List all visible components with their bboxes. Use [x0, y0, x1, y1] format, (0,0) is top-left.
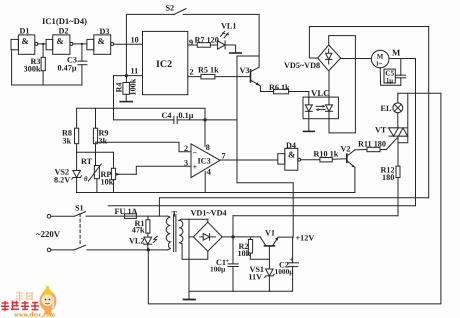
svg-text:&: & — [57, 36, 64, 46]
wire R8/VS2/RP row — [77, 151, 114, 153]
svg-text:R7 120: R7 120 — [195, 36, 219, 45]
wire divider top rail — [77, 108, 205, 146]
svg-text:VL2: VL2 — [129, 237, 144, 246]
capacitor C3 — [78, 44, 87, 85]
transistor V1 — [260, 237, 278, 269]
ground VL1 — [230, 52, 241, 54]
capacitor C2 — [287, 237, 298, 267]
gate D2 — [46, 35, 73, 54]
resistor R1 — [146, 216, 150, 237]
svg-text:8: 8 — [206, 143, 210, 152]
zener diode VS2 — [72, 152, 82, 192]
svg-text:EL: EL — [381, 104, 392, 113]
svg-text:100μ: 100μ — [210, 265, 226, 274]
node R3 tap — [42, 43, 44, 45]
svg-text:R10 1k: R10 1k — [314, 149, 339, 158]
resistor R12 — [396, 166, 400, 216]
resistor R2 — [248, 237, 269, 259]
svg-text:2: 2 — [184, 144, 188, 153]
wire VT bypass — [398, 93, 408, 143]
svg-text:&: & — [98, 36, 105, 46]
transistor V3 — [251, 67, 261, 91]
svg-text:V1: V1 — [265, 229, 275, 238]
svg-text:C4: C4 — [162, 111, 172, 120]
logo watermark glyph blobs (faint orange) — [16, 291, 33, 301]
op-amp U IC2 box — [143, 31, 188, 94]
potentiometer RP — [111, 152, 136, 192]
svg-text:R6 1k: R6 1k — [269, 83, 290, 92]
svg-text:VD5~VD8: VD5~VD8 — [284, 61, 320, 70]
node junction S2/pin11 — [125, 74, 128, 77]
wire secondary bottom to bridge AC2 — [182, 244, 208, 259]
svg-text:VLC: VLC — [311, 88, 330, 98]
resistor R6 — [261, 89, 309, 94]
triac VT — [388, 128, 407, 166]
svg-text:7: 7 — [222, 152, 226, 161]
wire R8 bottom — [76, 144, 78, 153]
svg-text:10k: 10k — [238, 249, 251, 258]
logo red glyph blobs — [1, 301, 39, 311]
switch S1 — [51, 212, 168, 250]
wire IC3 pin8 (up) — [204, 120, 206, 146]
svg-text:R11 180: R11 180 — [358, 139, 386, 148]
wire bridge right vertex to motor — [341, 58, 372, 60]
svg-text:T: T — [172, 210, 178, 219]
resistor R5 — [188, 74, 251, 79]
wire D3 output to IC2 pin 10 — [114, 43, 143, 45]
wire EL top — [398, 92, 441, 94]
svg-text:9: 9 — [189, 38, 193, 47]
wire VLC output to bridge-top riser — [329, 36, 356, 133]
wire D2 output to D3 — [73, 43, 87, 45]
wire DC+ riser to R12 rail — [232, 216, 234, 237]
LED VL2 — [144, 236, 157, 250]
svg-text:C5: C5 — [385, 69, 394, 78]
wire D1 output to D2 — [38, 43, 46, 45]
svg-text:0.1μ: 0.1μ — [179, 111, 194, 120]
svg-text:3: 3 — [184, 159, 188, 168]
wire motor bottom loop — [380, 68, 401, 86]
wire rail R12 to DC+ — [233, 215, 398, 217]
lamp EL — [393, 93, 403, 128]
wire VL1 cathode to ground — [225, 45, 236, 53]
gate D3 — [87, 35, 114, 54]
wire motor right — [389, 58, 416, 60]
svg-text:S2: S2 — [166, 4, 175, 13]
terminal 220V line — [47, 215, 51, 219]
transformer T primary — [166, 216, 170, 250]
svg-text:D3: D3 — [100, 27, 110, 36]
svg-text:4: 4 — [207, 168, 211, 177]
svg-text:300k: 300k — [24, 65, 41, 74]
svg-text:10: 10 — [131, 36, 139, 45]
svg-text:V3: V3 — [240, 66, 250, 75]
wire feedback loop to D1 inputs — [12, 50, 82, 85]
transistor V2 — [347, 150, 355, 168]
resistor R9 — [93, 108, 97, 165]
svg-text:V2: V2 — [341, 145, 351, 154]
wire RP wiper to IC3 pin3 — [136, 166, 191, 174]
LED VL1 — [218, 32, 229, 50]
gate D1 — [11, 35, 38, 54]
svg-text:+: + — [225, 258, 229, 265]
svg-text:IC1(D1~D4): IC1(D1~D4) — [42, 16, 87, 26]
svg-text:1~: 1~ — [376, 61, 383, 68]
wire +12V link — [237, 183, 293, 237]
svg-text:&: & — [22, 36, 29, 46]
ground R4 — [120, 101, 132, 103]
wire ground rail — [189, 267, 293, 292]
svg-text:+12V: +12V — [296, 234, 315, 243]
svg-text:S1: S1 — [75, 204, 84, 213]
svg-text:RT: RT — [81, 157, 93, 166]
wire IC3 pin4 (down) — [204, 171, 206, 192]
wire rail mains-live — [159, 198, 428, 216]
transformer T core — [174, 215, 176, 252]
svg-text:10k: 10k — [101, 178, 114, 187]
svg-text:0.47μ: 0.47μ — [58, 64, 77, 73]
wire V2 emitter to rail — [354, 167, 356, 192]
wire S2 to V3 collector drop — [258, 14, 260, 67]
svg-text:11: 11 — [131, 67, 139, 76]
ground VLC — [304, 130, 315, 132]
svg-text:11V: 11V — [248, 273, 262, 282]
svg-text:IC3: IC3 — [198, 157, 211, 166]
svg-text:1000μ: 1000μ — [275, 267, 295, 276]
capacitor C1 — [228, 237, 238, 291]
svg-text:8.2V: 8.2V — [54, 176, 70, 185]
wire rail V2-emitter/sensor common — [77, 192, 355, 194]
capacitor C4 — [114, 116, 238, 123]
zener diode VS1 — [265, 269, 274, 291]
svg-text:D2: D2 — [59, 27, 69, 36]
wire IC2 pin 11 — [114, 75, 143, 77]
svg-text:1μ: 1μ — [386, 78, 393, 85]
wire rail motor-return — [108, 205, 415, 207]
svg-text:3k: 3k — [63, 137, 72, 146]
svg-text:+: + — [290, 257, 294, 264]
node C3 tap — [81, 43, 83, 45]
wire DC- down — [188, 237, 190, 300]
wire bridge left vertex to mains riser — [309, 27, 317, 59]
ground main — [184, 299, 196, 301]
resistor R7 — [188, 43, 218, 48]
svg-text:~220V: ~220V — [36, 229, 61, 239]
wire DC+ — [222, 236, 260, 238]
svg-text:VT: VT — [375, 126, 387, 135]
wire S2 riser — [125, 14, 127, 75]
node osc feedback junction — [42, 84, 44, 86]
resistor R3 — [41, 44, 45, 85]
wire secondary top to bridge AC1 — [181, 218, 208, 220]
wire R9/RT to IC3 pin2 — [96, 142, 192, 152]
node DC+ junction — [231, 235, 234, 238]
svg-text:180: 180 — [382, 173, 394, 182]
svg-text:M: M — [392, 48, 401, 58]
gate D4 — [278, 148, 301, 170]
optocoupler VLC — [303, 71, 338, 133]
rectifier bridge VD1~VD4 — [193, 219, 222, 251]
svg-text:M: M — [377, 54, 384, 61]
resistor R8 — [75, 128, 79, 144]
svg-text:D4: D4 — [286, 141, 296, 150]
switch S2 — [126, 9, 259, 15]
svg-text:100k: 100k — [129, 78, 138, 95]
wire DC- to ground — [189, 219, 193, 237]
logo mascot — [40, 286, 57, 315]
terminal 220V neutral — [47, 248, 51, 252]
op-amp IC3 — [191, 144, 220, 178]
node VL2/neutral junction — [147, 248, 150, 251]
label box C5 — [384, 69, 395, 83]
wire pin11 corner to C4 — [113, 76, 115, 120]
wire IC3 output pin7 — [220, 159, 278, 161]
svg-text:R4: R4 — [115, 82, 124, 92]
svg-text:FU 1A: FU 1A — [115, 207, 138, 216]
svg-text:IC2: IC2 — [156, 59, 172, 70]
svg-text:47k: 47k — [132, 226, 145, 235]
resistor R11 — [355, 138, 397, 152]
wire +12V output — [278, 236, 293, 238]
svg-text:R5 1k: R5 1k — [198, 66, 219, 75]
svg-text:3k: 3k — [99, 137, 108, 146]
svg-text:θ: θ — [84, 176, 88, 183]
thermistor RT — [88, 164, 101, 193]
wire top mains — [309, 27, 428, 198]
fuse FU — [125, 214, 168, 219]
capacitor C5 — [396, 59, 406, 86]
transformer T secondary — [179, 219, 183, 244]
wire neutral down and right to EL return — [148, 93, 441, 304]
svg-text:VL1: VL1 — [221, 22, 236, 31]
svg-text:2: 2 — [190, 68, 194, 77]
svg-text:&: & — [288, 150, 295, 160]
resistor R10 — [301, 158, 347, 162]
wire motor drop to rail — [415, 59, 417, 206]
node C4/pin8 junction — [203, 118, 206, 121]
svg-text:D1: D1 — [20, 27, 30, 36]
resistor R4 — [123, 76, 129, 102]
rectifier bridge VD5~VD8 — [318, 45, 341, 71]
wire V3 branch top — [237, 56, 259, 183]
svg-text:VD1~VD4: VD1~VD4 — [191, 209, 227, 218]
motor M — [371, 50, 389, 68]
